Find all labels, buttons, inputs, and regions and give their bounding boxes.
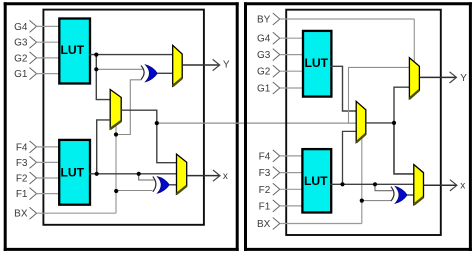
mux F5 (left panel): [110, 90, 121, 130]
wire G' branch down to F5 top input: [96, 55, 110, 100]
input F4: [16, 141, 60, 154]
LUT F (right panel): [302, 149, 331, 212]
svg-text:Y: Y: [460, 73, 467, 84]
svg-text:F1: F1: [16, 189, 28, 200]
wire G-LUT output to Y mux top input: [89, 54, 172, 56]
wire F' (right) horizontal to X2 mux: [330, 183, 414, 185]
input G1 (right): [257, 82, 304, 95]
wire BX branch to XOR2 bottom input: [362, 200, 392, 202]
wire G' (right) to F6 top input: [330, 66, 356, 111]
node G' junction at LUT output: [94, 53, 98, 57]
wire F6 junction up to Y2 mux bottom input: [394, 87, 409, 123]
wire BX vertical up to F5 select: [115, 125, 117, 213]
svg-text:G4: G4: [257, 34, 271, 45]
wire XOR-F output to X mux bottom input: [169, 184, 177, 186]
wire F' jog to XOR-F top input: [139, 174, 155, 180]
svg-text:LUT: LUT: [60, 165, 84, 179]
input G2: [14, 52, 60, 65]
input F2: [16, 172, 60, 185]
panel 2 outer border: [244, 2, 472, 251]
svg-text:BX: BX: [14, 209, 28, 220]
xor gate XOR-F: [153, 177, 170, 194]
svg-text:x: x: [460, 181, 465, 192]
wire BY down to Y2 mux select: [413, 19, 415, 62]
node BX to XOR-F junction: [114, 189, 118, 193]
svg-text:G3: G3: [257, 50, 271, 61]
node F' junction at LUT output: [95, 172, 99, 176]
wire G' branch to XOR-G top input: [96, 68, 143, 70]
wire X2 output arrow: [424, 180, 466, 192]
xor gate XOR2-F (right panel): [391, 186, 407, 203]
svg-text:F4: F4: [259, 151, 271, 162]
svg-text:F3: F3: [16, 158, 28, 169]
input F4 (right): [259, 150, 304, 163]
svg-text:F1: F1: [259, 201, 271, 212]
node F6 output junction: [392, 121, 396, 125]
node F' junction 2 (right): [373, 182, 377, 186]
svg-text:BY: BY: [257, 15, 271, 26]
wire F6 junction down to X2 mux top input: [394, 123, 414, 174]
LUT G (left panel): [59, 19, 90, 84]
wire F' jog to XOR2 top input: [375, 184, 393, 190]
mux FXMUX (left panel X mux): [177, 154, 187, 194]
input G3: [14, 36, 60, 49]
mux F6 (right panel): [356, 101, 366, 142]
mux GYMUX (left panel Y mux): [173, 45, 183, 86]
node BX2 junction: [360, 199, 364, 203]
wire BX branch to XOR-G bottom input: [116, 80, 142, 135]
input G4 (right): [257, 32, 304, 45]
input F2 (right): [259, 183, 304, 196]
LUT G (right panel): [303, 31, 331, 97]
node F5 output junction: [155, 121, 159, 125]
node G' junction to XOR: [94, 67, 98, 71]
mux FXMUX (right panel X mux): [414, 165, 424, 205]
wire F6 output to junction: [366, 122, 394, 124]
svg-text:Y: Y: [223, 60, 230, 71]
node F' junction to XOR: [137, 172, 141, 176]
panel 1 inner box: [43, 10, 204, 225]
wire F-LUT output to X mux: [89, 173, 176, 175]
svg-text:G3: G3: [14, 38, 28, 49]
input G3 (right): [257, 49, 304, 62]
svg-text:G2: G2: [14, 53, 28, 64]
input BX (right): [257, 218, 362, 231]
svg-text:BX: BX: [257, 219, 271, 230]
wire XOR2 output to X2 mux: [407, 194, 414, 196]
svg-text:G2: G2: [257, 67, 271, 78]
wire Y2 top input from F5 line (corner at 349.5): [349, 67, 410, 123]
wire X output arrow: [187, 170, 228, 182]
wire F' branch up to F6 lower input: [343, 131, 357, 184]
input F3 (right): [259, 167, 304, 180]
input BX: [14, 207, 116, 220]
svg-text:F2: F2: [16, 174, 28, 185]
wire Y2 output arrow: [419, 72, 467, 84]
svg-text:G1: G1: [14, 69, 28, 80]
input F1: [16, 188, 60, 201]
node F' junction 1 (right): [340, 182, 344, 186]
wire F5 to F6 mux (crosses both panels): [157, 122, 356, 124]
panel 2 inner box: [286, 10, 441, 235]
wire F' branch up to F5 bottom input: [97, 120, 111, 174]
LUT F (left panel): [59, 140, 90, 205]
svg-text:F2: F2: [259, 185, 271, 196]
mux GYMUX (right panel Y mux): [409, 58, 419, 99]
input G4: [14, 20, 60, 33]
input F3: [16, 156, 60, 169]
input BY: [257, 13, 414, 26]
svg-text:G4: G4: [14, 22, 28, 33]
input G1: [14, 68, 60, 81]
svg-text:LUT: LUT: [304, 56, 328, 70]
xor gate XOR-G: [141, 65, 157, 82]
input G2 (right): [257, 65, 304, 78]
svg-text:LUT: LUT: [304, 174, 328, 188]
wire Y output arrow: [182, 59, 230, 70]
wire F5 output right and down to X mux top input: [121, 110, 176, 163]
wire BX vertical up to F6 select: [361, 139, 363, 224]
svg-text:G1: G1: [257, 84, 271, 95]
svg-text:F3: F3: [259, 168, 271, 179]
svg-text:x: x: [223, 171, 228, 182]
node BX to F5-select junction: [114, 132, 118, 136]
wire BX branch to XOR-F bottom input: [116, 190, 153, 192]
wire XOR-G output to Y mux bottom input: [157, 72, 173, 74]
svg-text:LUT: LUT: [60, 43, 84, 57]
input F1 (right): [259, 200, 304, 213]
svg-text:F4: F4: [16, 142, 28, 153]
panel 1 outer border: [4, 2, 239, 251]
